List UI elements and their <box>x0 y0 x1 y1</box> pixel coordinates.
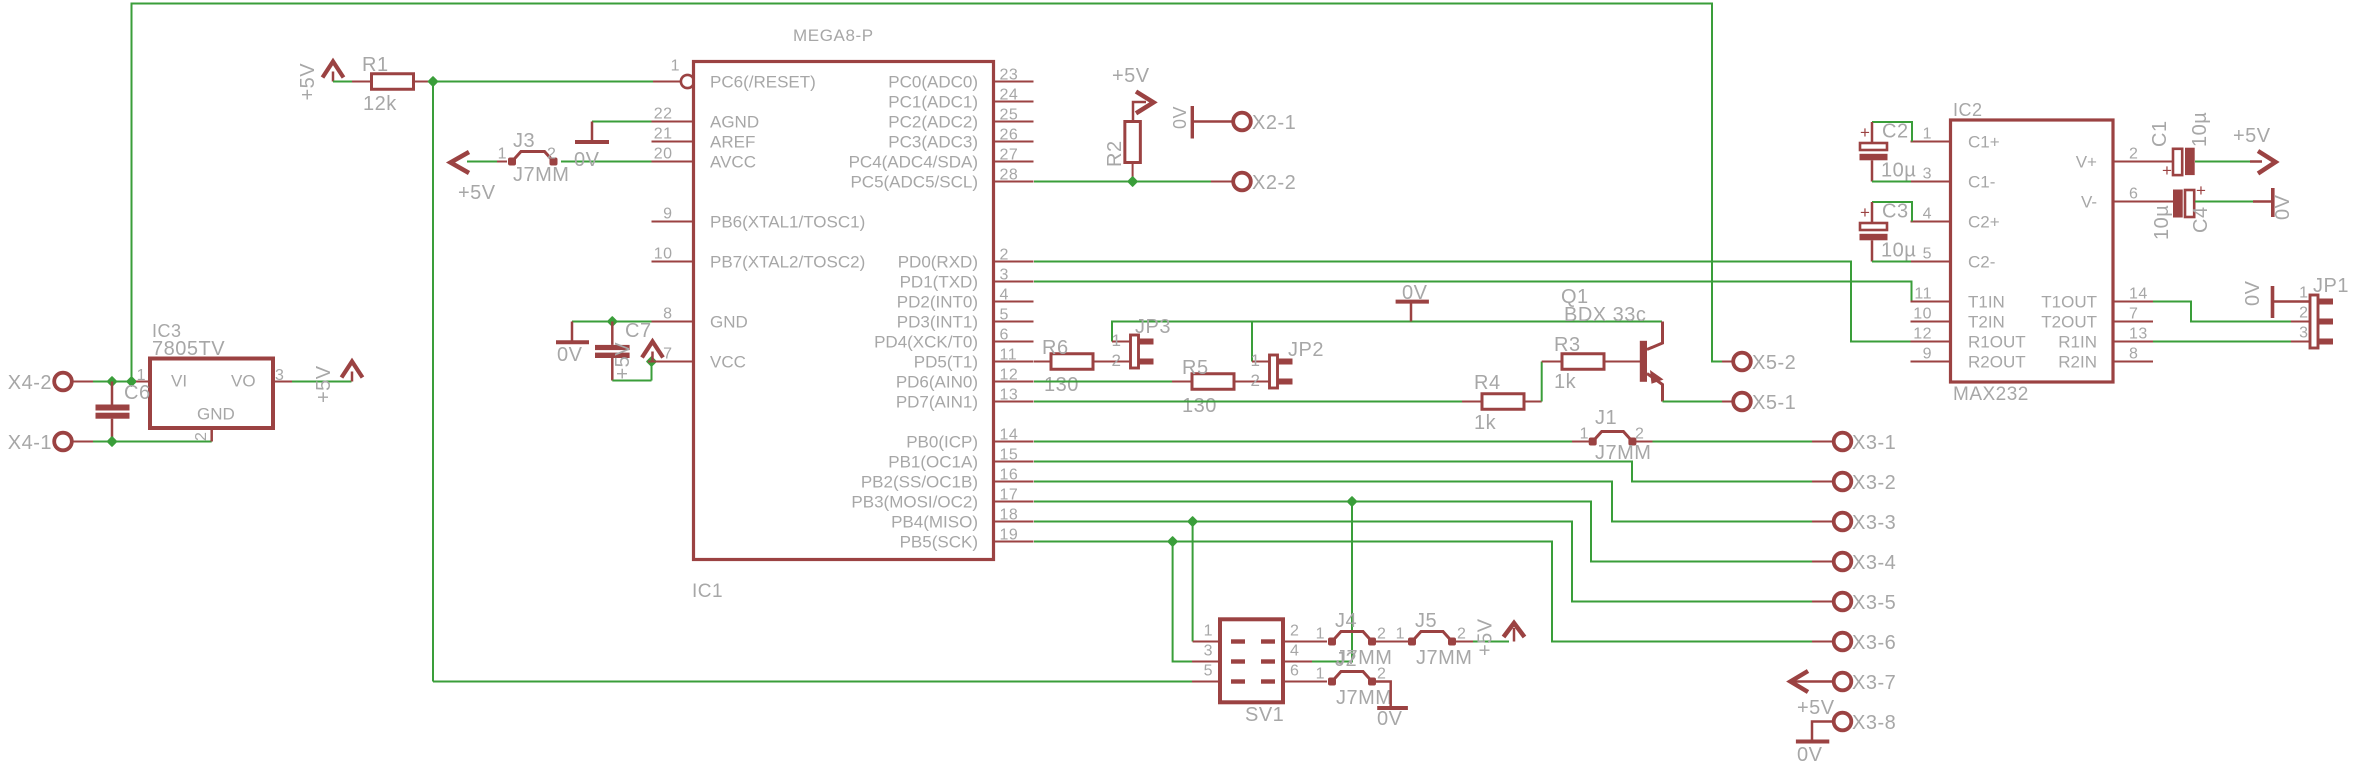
svg-text:3: 3 <box>1204 643 1213 660</box>
svg-text:26: 26 <box>1000 127 1019 144</box>
svg-text:R6: R6 <box>1042 337 1069 359</box>
svg-text:J4: J4 <box>1335 610 1357 632</box>
svg-text:17: 17 <box>1000 487 1019 504</box>
svg-text:0V: 0V <box>2272 194 2294 220</box>
svg-text:9: 9 <box>1923 346 1932 363</box>
svg-text:MAX232: MAX232 <box>1953 384 2029 405</box>
svg-text:VO: VO <box>231 372 256 391</box>
svg-text:C6: C6 <box>124 382 151 404</box>
svg-text:11: 11 <box>1000 347 1018 364</box>
svg-text:R3: R3 <box>1554 334 1581 356</box>
svg-text:2: 2 <box>1251 371 1261 390</box>
svg-text:PB3(MOSI/OC2): PB3(MOSI/OC2) <box>851 493 978 512</box>
svg-text:10: 10 <box>654 246 673 263</box>
svg-text:+: + <box>1860 203 1870 222</box>
svg-text:2: 2 <box>547 146 556 163</box>
svg-text:1: 1 <box>1396 626 1405 643</box>
svg-text:C4: C4 <box>2190 206 2212 233</box>
svg-text:0V: 0V <box>1402 282 1428 304</box>
svg-text:X3-2: X3-2 <box>1852 472 1896 494</box>
svg-text:J5: J5 <box>1415 610 1437 632</box>
svg-text:6: 6 <box>1290 663 1299 680</box>
svg-text:1k: 1k <box>1554 371 1577 393</box>
svg-text:X4-1: X4-1 <box>8 432 52 454</box>
svg-text:7: 7 <box>2129 306 2138 323</box>
svg-text:R2: R2 <box>1104 140 1126 167</box>
svg-text:19: 19 <box>1000 527 1019 544</box>
svg-text:PC4(ADC4/SDA): PC4(ADC4/SDA) <box>849 153 978 172</box>
svg-text:3: 3 <box>1000 267 1009 284</box>
svg-text:C3: C3 <box>1882 201 1909 223</box>
svg-text:2: 2 <box>2299 305 2308 322</box>
svg-text:PC0(ADC0): PC0(ADC0) <box>888 73 978 92</box>
svg-text:R2OUT: R2OUT <box>1968 353 2026 372</box>
svg-text:1: 1 <box>671 58 680 75</box>
svg-text:+: + <box>2162 161 2172 180</box>
svg-text:PB4(MISO): PB4(MISO) <box>891 513 978 532</box>
svg-text:2: 2 <box>1000 247 1009 264</box>
svg-text:2: 2 <box>1457 626 1466 643</box>
svg-text:+5V: +5V <box>313 365 335 403</box>
svg-text:2: 2 <box>1635 426 1644 443</box>
svg-text:1: 1 <box>2299 285 2308 302</box>
svg-text:C2: C2 <box>1882 121 1909 143</box>
svg-text:X2-2: X2-2 <box>1252 172 1296 194</box>
svg-text:10µ: 10µ <box>2189 112 2211 147</box>
svg-text:PD1(TXD): PD1(TXD) <box>900 273 978 292</box>
svg-text:PD7(AIN1): PD7(AIN1) <box>896 393 978 412</box>
svg-text:0V: 0V <box>1170 106 1190 129</box>
svg-text:1: 1 <box>498 146 507 163</box>
svg-text:7805TV: 7805TV <box>152 338 225 360</box>
svg-text:14: 14 <box>1000 427 1019 444</box>
svg-text:10µ: 10µ <box>1881 240 1916 262</box>
svg-text:2: 2 <box>193 432 210 441</box>
svg-text:5: 5 <box>1204 663 1213 680</box>
svg-text:JP2: JP2 <box>1288 339 1324 361</box>
svg-text:VI: VI <box>171 372 187 391</box>
svg-text:1: 1 <box>1923 126 1932 143</box>
svg-text:5: 5 <box>1923 246 1932 263</box>
svg-text:2: 2 <box>1377 626 1386 643</box>
svg-text:1: 1 <box>1251 351 1261 370</box>
svg-text:GND: GND <box>197 405 235 424</box>
svg-text:PD2(INT0): PD2(INT0) <box>897 293 978 312</box>
svg-text:R1OUT: R1OUT <box>1968 333 2026 352</box>
svg-text:V+: V+ <box>2076 153 2097 172</box>
svg-text:J7MM: J7MM <box>1416 647 1472 669</box>
svg-text:PB6(XTAL1/TOSC1): PB6(XTAL1/TOSC1) <box>710 213 865 232</box>
svg-text:J1: J1 <box>1595 407 1617 429</box>
svg-text:0V: 0V <box>557 344 583 366</box>
svg-text:1: 1 <box>1316 626 1325 643</box>
svg-text:+5V: +5V <box>2233 125 2271 147</box>
svg-text:1: 1 <box>1204 623 1213 640</box>
svg-text:T1OUT: T1OUT <box>2041 293 2097 312</box>
svg-text:0V: 0V <box>1377 708 1403 730</box>
svg-text:2: 2 <box>1290 623 1299 640</box>
svg-text:X3-8: X3-8 <box>1852 712 1896 734</box>
svg-text:PB5(SCK): PB5(SCK) <box>900 533 978 552</box>
svg-text:PD6(AIN0): PD6(AIN0) <box>896 373 978 392</box>
svg-text:PC2(ADC2): PC2(ADC2) <box>888 113 978 132</box>
svg-text:BDX 33c: BDX 33c <box>1564 304 1646 326</box>
svg-text:X2-1: X2-1 <box>1252 112 1296 134</box>
svg-text:28: 28 <box>1000 167 1019 184</box>
svg-text:4: 4 <box>1000 287 1009 304</box>
svg-text:5: 5 <box>1000 307 1009 324</box>
svg-text:0V: 0V <box>2242 280 2264 306</box>
svg-text:R2IN: R2IN <box>2058 353 2097 372</box>
svg-text:PD3(INT1): PD3(INT1) <box>897 313 978 332</box>
svg-text:C1: C1 <box>2149 120 2171 147</box>
svg-text:4: 4 <box>1290 643 1299 660</box>
svg-text:2: 2 <box>1377 666 1386 683</box>
svg-text:R5: R5 <box>1182 357 1209 379</box>
svg-text:X3-3: X3-3 <box>1852 512 1896 534</box>
svg-text:C1+: C1+ <box>1968 133 2000 152</box>
svg-text:X4-2: X4-2 <box>8 372 52 394</box>
svg-text:4: 4 <box>1923 206 1932 223</box>
svg-text:R1IN: R1IN <box>2058 333 2097 352</box>
svg-text:+: + <box>2196 181 2206 200</box>
svg-text:X3-4: X3-4 <box>1852 552 1896 574</box>
svg-text:0V: 0V <box>1797 744 1823 766</box>
svg-text:12: 12 <box>1000 367 1019 384</box>
svg-text:+5V: +5V <box>297 63 319 101</box>
svg-text:T2IN: T2IN <box>1968 313 2005 332</box>
svg-text:15: 15 <box>1000 447 1019 464</box>
svg-text:AREF: AREF <box>710 133 755 152</box>
svg-text:130: 130 <box>1182 395 1217 417</box>
svg-text:9: 9 <box>663 206 672 223</box>
svg-text:R4: R4 <box>1474 372 1501 394</box>
svg-text:PC6(/RESET): PC6(/RESET) <box>710 73 816 92</box>
svg-text:3: 3 <box>2299 325 2308 342</box>
svg-text:14: 14 <box>2129 286 2148 303</box>
svg-text:AVCC: AVCC <box>710 153 756 172</box>
svg-text:2: 2 <box>1112 351 1122 370</box>
svg-text:X3-7: X3-7 <box>1852 672 1896 694</box>
svg-text:1: 1 <box>1580 426 1589 443</box>
svg-text:21: 21 <box>654 126 673 143</box>
svg-text:11: 11 <box>1914 286 1932 303</box>
svg-text:MEGA8-P: MEGA8-P <box>793 26 874 45</box>
svg-text:GND: GND <box>710 313 748 332</box>
svg-text:V-: V- <box>2081 193 2097 212</box>
svg-text:X3-5: X3-5 <box>1852 592 1896 614</box>
svg-text:+5V: +5V <box>1475 618 1497 656</box>
svg-text:16: 16 <box>1000 467 1019 484</box>
svg-text:24: 24 <box>1000 87 1019 104</box>
svg-text:R1: R1 <box>362 54 389 76</box>
svg-text:10: 10 <box>1913 306 1932 323</box>
svg-text:3: 3 <box>1923 166 1932 183</box>
svg-text:+5V: +5V <box>458 182 496 204</box>
svg-text:27: 27 <box>1000 147 1019 164</box>
svg-text:13: 13 <box>1000 387 1019 404</box>
svg-text:23: 23 <box>1000 67 1019 84</box>
svg-text:+: + <box>1860 123 1870 142</box>
svg-text:25: 25 <box>1000 107 1019 124</box>
svg-text:C7: C7 <box>625 320 652 342</box>
svg-text:18: 18 <box>1000 507 1019 524</box>
svg-text:+5V: +5V <box>1112 65 1150 87</box>
svg-text:T1IN: T1IN <box>1968 293 2005 312</box>
svg-text:1: 1 <box>1112 331 1122 350</box>
svg-text:J2: J2 <box>1335 649 1357 671</box>
svg-text:PD5(T1): PD5(T1) <box>914 353 978 372</box>
svg-text:PC1(ADC1): PC1(ADC1) <box>888 93 978 112</box>
svg-text:X3-1: X3-1 <box>1852 432 1896 454</box>
svg-text:PC5(ADC5/SCL): PC5(ADC5/SCL) <box>850 173 978 192</box>
svg-text:PB2(SS/OC1B): PB2(SS/OC1B) <box>861 473 978 492</box>
svg-text:AGND: AGND <box>710 113 759 132</box>
svg-text:+5V: +5V <box>612 342 634 380</box>
svg-text:X3-6: X3-6 <box>1852 632 1896 654</box>
svg-text:10µ: 10µ <box>2151 205 2173 240</box>
svg-text:PB1(OC1A): PB1(OC1A) <box>888 453 978 472</box>
svg-text:PD0(RXD): PD0(RXD) <box>898 253 978 272</box>
svg-text:VCC: VCC <box>710 353 746 372</box>
svg-text:1: 1 <box>1316 666 1325 683</box>
svg-text:6: 6 <box>1000 327 1009 344</box>
svg-text:C2+: C2+ <box>1968 213 2000 232</box>
svg-text:X5-2: X5-2 <box>1752 352 1796 374</box>
svg-text:2: 2 <box>2129 146 2138 163</box>
svg-text:SV1: SV1 <box>1245 704 1284 726</box>
svg-text:PB7(XTAL2/TOSC2): PB7(XTAL2/TOSC2) <box>710 253 865 272</box>
svg-text:JP1: JP1 <box>2313 275 2349 297</box>
svg-text:22: 22 <box>654 106 673 123</box>
svg-text:C1-: C1- <box>1968 173 1995 192</box>
svg-text:C2-: C2- <box>1968 253 1995 272</box>
svg-text:J7MM: J7MM <box>513 164 569 186</box>
svg-text:J3: J3 <box>513 130 535 152</box>
svg-text:PD4(XCK/T0): PD4(XCK/T0) <box>874 333 978 352</box>
svg-text:T2OUT: T2OUT <box>2041 313 2097 332</box>
svg-text:PB0(ICP): PB0(ICP) <box>906 433 978 452</box>
svg-text:7: 7 <box>663 346 672 363</box>
svg-text:+5V: +5V <box>1797 697 1835 719</box>
svg-text:12k: 12k <box>363 93 397 115</box>
svg-text:10µ: 10µ <box>1881 160 1916 182</box>
svg-text:PC3(ADC3): PC3(ADC3) <box>888 133 978 152</box>
svg-text:12: 12 <box>1913 326 1932 343</box>
svg-text:X5-1: X5-1 <box>1752 392 1796 414</box>
svg-text:6: 6 <box>2129 186 2138 203</box>
svg-text:8: 8 <box>663 306 672 323</box>
svg-text:20: 20 <box>654 146 673 163</box>
svg-text:JP3: JP3 <box>1135 316 1171 338</box>
svg-text:IC1: IC1 <box>692 581 723 602</box>
svg-text:0V: 0V <box>574 149 600 171</box>
svg-text:8: 8 <box>2129 346 2138 363</box>
svg-text:1k: 1k <box>1474 412 1497 434</box>
svg-text:J7MM: J7MM <box>1336 687 1392 709</box>
svg-text:13: 13 <box>2129 326 2148 343</box>
svg-text:IC2: IC2 <box>1953 100 1983 120</box>
svg-text:130: 130 <box>1044 374 1079 396</box>
